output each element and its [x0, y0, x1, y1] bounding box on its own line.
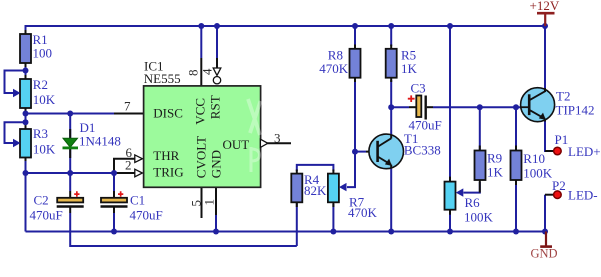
wire P2 stub	[545, 194, 553, 196]
wire T1 base black segment	[366, 151, 369, 153]
wire ground rail A	[26, 231, 546, 233]
capacitor C2	[57, 191, 84, 206]
resistor R10	[511, 151, 522, 181]
resistor R7 (pot)	[328, 174, 339, 203]
wire P2 down to rail	[544, 195, 546, 232]
wire C2 top stub	[69, 173, 71, 191]
wire T1 emitter down	[390, 167, 392, 232]
pin4 inverter circle	[213, 77, 220, 84]
wire horizontal trig net y173	[26, 172, 115, 174]
wire C3 black stubs	[409, 106, 416, 108]
transistor T2 body	[521, 88, 555, 122]
wire pin8 black segment	[200, 58, 202, 86]
svg-text:R3: R3	[33, 126, 48, 141]
svg-text:1N4148: 1N4148	[79, 134, 121, 149]
svg-text:VCC: VCC	[193, 98, 208, 125]
wire C1 top stub	[113, 173, 115, 191]
wire R1-R2	[25, 63, 27, 79]
wire T1 base	[355, 151, 366, 153]
svg-text:1: 1	[202, 199, 217, 206]
transistor T1 base bar	[376, 141, 379, 162]
terminal P2	[554, 191, 562, 199]
wire T2 collector from rail	[544, 26, 546, 89]
wire D1 black segment	[69, 129, 71, 158]
wire pin1 black stub	[215, 187, 217, 215]
wire R6 top from +12V rail	[449, 26, 451, 182]
wire R5 top stub	[390, 26, 392, 46]
transistor T2 collector	[529, 91, 545, 100]
svg-text:P1: P1	[555, 132, 569, 147]
svg-text:CVOLT: CVOLT	[194, 136, 209, 178]
wire D1 vertical	[69, 114, 71, 174]
svg-text:BC338: BC338	[404, 143, 441, 158]
wire C3 right to T2 base	[433, 106, 521, 108]
ground symbol	[540, 232, 552, 247]
svg-text:470uF: 470uF	[30, 208, 63, 223]
wire R7 bottom	[332, 204, 334, 232]
wire T1 collector into circle	[390, 135, 392, 139]
wire R3 bottom down to ground rail	[25, 158, 27, 232]
svg-text:82K: 82K	[304, 183, 327, 198]
pot R3 wiper arrow	[13, 139, 21, 147]
pot R2 wiper arrow	[13, 89, 21, 97]
pin6 input arrow	[135, 155, 143, 163]
wire R1 top stub	[25, 25, 27, 34]
pin2 input arrow	[135, 169, 143, 177]
svg-text:470uF: 470uF	[130, 208, 163, 223]
wire pin1 lower stub	[215, 215, 217, 232]
wire pin8 stub	[200, 26, 202, 58]
svg-text:7: 7	[124, 99, 131, 114]
resistor R6 (pot)	[445, 182, 456, 210]
svg-text:8: 8	[186, 70, 201, 77]
svg-text:RST: RST	[207, 95, 222, 119]
svg-text:4: 4	[200, 68, 215, 75]
transistor T1 collector	[378, 138, 392, 147]
transistor T1 body	[369, 134, 404, 169]
svg-text:C1: C1	[130, 193, 145, 208]
svg-text:470uF: 470uF	[409, 118, 442, 133]
wire C3 left	[391, 106, 409, 108]
wire R8 bottom to base and wiper	[347, 80, 355, 187]
svg-text:DISC: DISC	[153, 106, 183, 121]
wire R10 bottom	[515, 182, 517, 232]
svg-text:10K: 10K	[33, 92, 56, 107]
svg-text:100K: 100K	[464, 210, 494, 225]
svg-text:LED-: LED-	[568, 188, 598, 203]
wire R9 bottom to R6 wiper	[464, 182, 480, 193]
svg-text:C2: C2	[34, 193, 49, 208]
wire R2 wiper loop	[5, 71, 26, 94]
power +12V symbol	[537, 13, 555, 26]
op IC1 NE555 body	[144, 86, 261, 187]
resistor R4	[291, 174, 302, 203]
svg-text:1K: 1K	[487, 165, 504, 180]
pin4 inverter triangle	[213, 68, 221, 75]
wire pin5 stub open	[201, 187, 203, 218]
wire pin3 out line	[267, 142, 291, 144]
svg-text:470K: 470K	[319, 61, 349, 76]
resistor R2 (pot)	[20, 79, 31, 108]
wire pin4 stub	[216, 26, 218, 58]
svg-text:TRIG: TRIG	[153, 165, 183, 180]
svg-text:P2: P2	[552, 178, 566, 193]
wire R5 bottom collector line	[390, 80, 392, 139]
wire R2 bottom to R3 top	[25, 108, 27, 129]
svg-text:2: 2	[125, 158, 132, 173]
wire R3 wiper loop	[5, 122, 26, 143]
wire pin6 riser and stub	[114, 159, 136, 173]
svg-text:TIP142: TIP142	[556, 103, 595, 118]
wire P1 stub	[545, 150, 553, 152]
wire R4 R7 top bridge	[297, 165, 334, 171]
capacitor C3	[408, 95, 426, 119]
svg-text:470K: 470K	[348, 205, 378, 220]
svg-text:OUT: OUT	[223, 137, 250, 152]
watermark on IC right edge	[248, 99, 261, 172]
svg-text:10K: 10K	[33, 142, 56, 157]
diode D1	[63, 138, 79, 148]
pin3 output arrow	[260, 139, 267, 147]
wire C1 black stubs	[113, 191, 115, 198]
wire C2 black stubs	[69, 191, 71, 198]
resistor R5	[386, 49, 397, 78]
wire R6 bottom	[449, 210, 451, 232]
resistor R1	[20, 34, 31, 63]
svg-text:LED+: LED+	[568, 144, 601, 159]
svg-text:GND: GND	[531, 247, 558, 261]
transistor T1 emitter with arrow	[378, 157, 392, 165]
wire T2 base black stub	[521, 106, 529, 108]
svg-text:THR: THR	[153, 148, 179, 163]
wire C2 bottom to rail B	[70, 213, 297, 246]
wire rail B up to R4	[296, 199, 298, 246]
svg-text:R6: R6	[465, 195, 481, 210]
wire pin4 black segment	[216, 58, 218, 68]
wire pin7 black segment	[114, 113, 144, 115]
resistor R8	[350, 49, 361, 78]
svg-text:100: 100	[33, 46, 53, 61]
resistor terminal stubs black	[25, 30, 27, 35]
svg-text:+12V: +12V	[530, 0, 560, 13]
resistor R9	[475, 151, 486, 181]
pot R6 wiper arrow	[456, 188, 464, 196]
svg-text:R2: R2	[33, 77, 48, 92]
svg-text:R10: R10	[523, 151, 545, 166]
resistor R3 (pot)	[20, 129, 31, 158]
wire R9 top stub	[479, 107, 481, 150]
svg-text:R9: R9	[487, 151, 502, 166]
wire R8 top stub	[354, 26, 356, 46]
transistor T2 base bar	[528, 94, 531, 115]
capacitor C1	[101, 191, 128, 206]
svg-text:T2: T2	[556, 89, 570, 104]
terminal P1	[554, 147, 562, 155]
wire horizontal disc net y113	[26, 113, 116, 115]
wire pin2 black stub	[114, 172, 136, 174]
svg-text:3: 3	[274, 131, 281, 146]
svg-text:1K: 1K	[401, 61, 418, 76]
transistor T2 emitter with arrow	[529, 110, 545, 119]
pot R7 wiper arrow	[339, 183, 347, 191]
svg-text:GND: GND	[208, 150, 223, 178]
wire top rail	[26, 25, 546, 27]
svg-text:C3: C3	[411, 81, 426, 96]
wire T2 emitter to P1	[545, 120, 553, 151]
svg-text:100K: 100K	[523, 166, 553, 181]
wire C1 bottom	[113, 213, 115, 232]
wire R10 top stub	[515, 107, 517, 150]
svg-text:NE555: NE555	[144, 71, 181, 86]
